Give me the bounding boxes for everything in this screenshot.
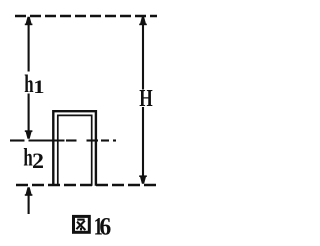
top reference dashed line: [15, 15, 157, 17]
svg-text:6: 6: [99, 213, 111, 241]
h1 dimension line shaft upper: [28, 17, 30, 72]
H top arrowhead (up): [139, 17, 147, 25]
h2 lower extension shaft: [28, 195, 30, 214]
h1 top arrowhead (up): [25, 17, 33, 25]
tube inner wall: [58, 115, 92, 185]
H dimension line shaft: [142, 17, 144, 184]
svg-text:2: 2: [32, 148, 44, 173]
caption glyph 图 (hand drawn): [74, 216, 90, 232]
label H (white backing): [139, 90, 153, 108]
liquid level dash-dot line: [10, 139, 116, 141]
svg-text:1: 1: [33, 77, 44, 98]
bottom reference dashed line: [16, 184, 158, 186]
H bottom arrowhead (down): [139, 175, 147, 183]
h1 bottom arrowhead (down): [25, 130, 33, 138]
svg-text:h: h: [24, 70, 33, 98]
h2 lower arrowhead (up, below bottom line): [25, 187, 33, 196]
h1 dimension line shaft lower: [28, 94, 30, 133]
tube outer wall: [53, 111, 96, 186]
svg-text:H: H: [139, 84, 152, 112]
